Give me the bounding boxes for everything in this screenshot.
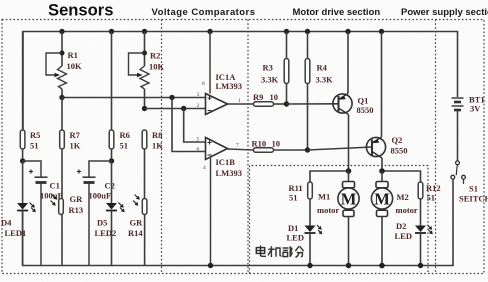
node R1/R7 junction (59, 95, 64, 100)
wire R1 column upper (61, 32, 63, 67)
node top rail R1 column (59, 29, 64, 34)
node R5/D4 junction (20, 158, 25, 163)
wire motor rail A (310, 171, 349, 182)
wire bottom ground rail (23, 180, 453, 266)
op-amp U1A IC1A LM393 (197, 32, 242, 115)
section divider Comparators/Motor (247, 20, 249, 274)
section divider Sensors/Comparators (161, 20, 163, 274)
node D2 ground (418, 263, 423, 268)
capacitor C1 (23, 161, 63, 266)
photoresistor GR R13 (51, 194, 84, 266)
resistor R11 (289, 182, 313, 226)
wire drop to IC1B minus (172, 98, 206, 152)
node top rail IC power (207, 29, 212, 34)
resistor R3 (261, 32, 289, 105)
node top rail R6 column (109, 29, 114, 34)
node top rail Q1 emitter (345, 29, 350, 34)
node Q1 collector motor rail (346, 168, 352, 174)
resistor R12 (418, 182, 440, 226)
wire motor rail B (382, 171, 421, 182)
LED D5 (95, 161, 125, 266)
resistor R5 (20, 32, 40, 162)
op-amp U1B IC1B LM393 (197, 137, 242, 266)
potentiometer R2 (129, 51, 165, 109)
wire rail1 comparator input (62, 97, 206, 99)
node M2 ground (379, 263, 385, 269)
potentiometer R1 (46, 50, 82, 98)
node rail1 drop (169, 95, 174, 100)
resistor R6 (109, 32, 130, 162)
wire R10 to Q2 base (308, 147, 373, 150)
resistor R4 (305, 32, 333, 151)
wire R2 column upper (144, 32, 146, 67)
LED D1 (287, 223, 323, 266)
resistor R10 (252, 139, 308, 153)
wire top supply rail (23, 32, 458, 131)
wire R9 to Q1 base (287, 103, 339, 105)
photoresistor GR R14 (128, 195, 147, 266)
section divider Motor/Power (435, 20, 437, 274)
node top rail R3 column (284, 29, 289, 34)
capacitor C2 (77, 161, 115, 266)
node R2/R8 junction (142, 106, 147, 111)
LED D2 (395, 221, 433, 266)
node rail2 drop (181, 106, 186, 111)
motor M1 (317, 171, 359, 266)
node Q2 collector motor rail (379, 168, 385, 174)
node IC1B ground at rail (208, 263, 213, 268)
node top rail Q2 emitter (379, 29, 384, 34)
node top rail R4 column (305, 29, 310, 34)
resistor R7 (60, 98, 81, 199)
wire rail2 comparator input (145, 108, 206, 110)
battery BT1 3V (452, 95, 485, 161)
node top rail R2 column (142, 29, 147, 34)
transistor Q2 8550 (366, 32, 407, 172)
node R3/R9 junction (284, 101, 289, 106)
resistor R8 (142, 130, 163, 199)
node R6/D5 junction (109, 158, 114, 163)
resistor R9 (253, 92, 287, 106)
transistor Q1 8550 (333, 32, 374, 172)
node R4/R10 junction (305, 147, 310, 152)
label motor section Chinese 电机部分 (256, 246, 303, 258)
node R2 wiper tap (142, 51, 147, 56)
motor sub-box dashed (250, 166, 429, 274)
node R1 wiper tap (60, 51, 65, 56)
node M1 ground (346, 263, 352, 269)
wire drop to IC1B plus (184, 109, 206, 143)
wire IC1B output (228, 149, 254, 150)
LED D4 (1, 161, 36, 266)
node D1 ground (307, 263, 312, 268)
switch S1 (451, 161, 488, 204)
motor M2 (371, 171, 418, 266)
wire IC1A output (228, 103, 254, 105)
